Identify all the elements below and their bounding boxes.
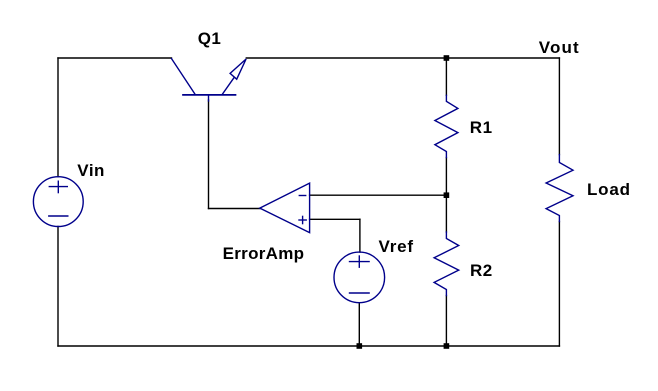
label Q1	[198, 30, 222, 47]
transistor Q1	[172, 59, 247, 101]
wire Load branch top vertical	[558, 58, 560, 155]
wire R1 top lead	[445, 58, 447, 95]
node junction at R2 bottom on ground rail	[444, 343, 450, 349]
label R2	[470, 262, 493, 279]
wire R1 bottom lead	[445, 158, 447, 196]
voltage source Vref	[334, 252, 385, 303]
node junction at Vout / R1 top	[444, 55, 450, 61]
resistor Load	[546, 155, 573, 222]
wire top rail Q1 collector to Load corner (node Vout)	[246, 57, 559, 59]
label ErrorAmp	[223, 245, 305, 262]
wire Vin top vertical	[57, 58, 59, 177]
wire R2 top lead	[445, 195, 447, 232]
wire Q1 base vertical	[208, 100, 210, 209]
label Vin	[77, 162, 105, 179]
wire non-inverting input down to Vref	[359, 219, 361, 252]
wire bottom rail	[58, 345, 559, 347]
label Vout (net name)	[539, 39, 580, 56]
voltage source Vin	[33, 177, 83, 227]
wire non-inverting input horizontal	[310, 218, 360, 220]
wire Load branch bottom vertical	[558, 222, 560, 347]
wire inverting input of ErrorAmp to R1/R2 node	[310, 194, 447, 196]
label Vref	[379, 238, 414, 255]
wire Vin bottom vertical	[57, 227, 59, 347]
node junction at Vref bottom on ground rail	[357, 343, 363, 349]
node junction at R1/R2 divider tap	[444, 192, 450, 198]
wire R2 bottom lead	[445, 296, 447, 347]
op-amp U1 ErrorAmp	[260, 183, 310, 233]
label Load	[587, 181, 631, 198]
label R1	[470, 119, 493, 136]
wire ErrorAmp output to Q1 base	[209, 208, 260, 210]
resistor R2	[434, 232, 459, 296]
wire top-left horizontal from Vin to Q1 emitter	[58, 57, 172, 59]
wire Vref bottom lead	[358, 303, 360, 346]
resistor R1	[435, 95, 458, 157]
